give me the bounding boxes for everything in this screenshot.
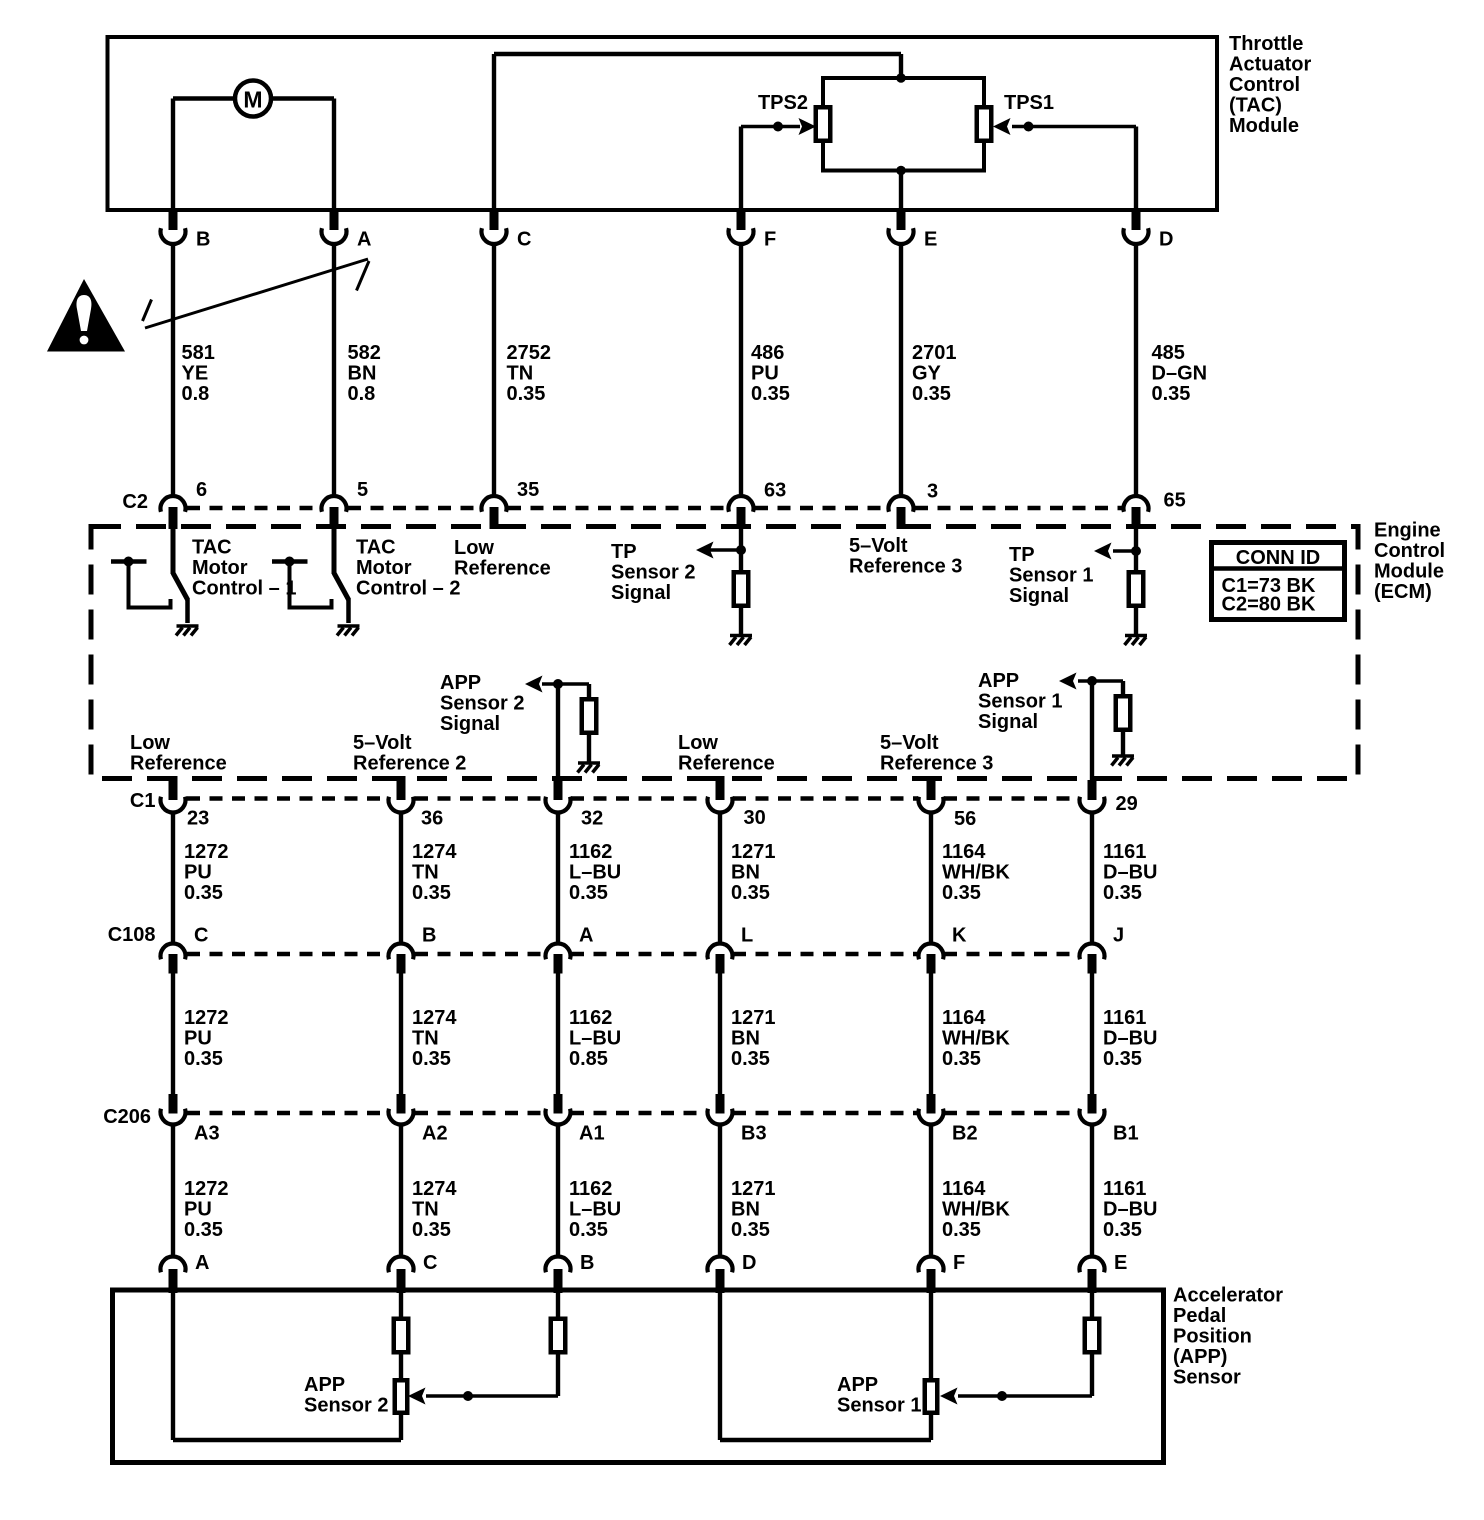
svg-text:Reference: Reference xyxy=(678,752,775,774)
svg-text:0.35: 0.35 xyxy=(184,1219,223,1241)
svg-text:C206: C206 xyxy=(103,1106,151,1128)
svg-text:23: 23 xyxy=(187,807,209,829)
svg-text:Sensor: Sensor xyxy=(1173,1366,1241,1388)
svg-text:0.35: 0.35 xyxy=(1152,383,1191,405)
svg-text:Reference: Reference xyxy=(130,752,227,774)
svg-text:(ECM): (ECM) xyxy=(1374,581,1432,603)
svg-text:35: 35 xyxy=(517,479,539,501)
svg-text:Motor: Motor xyxy=(192,557,248,579)
svg-text:(APP): (APP) xyxy=(1173,1346,1227,1368)
svg-text:BN: BN xyxy=(731,1198,760,1220)
svg-text:1272: 1272 xyxy=(184,1007,229,1029)
svg-text:5–Volt: 5–Volt xyxy=(849,535,908,557)
svg-text:0.35: 0.35 xyxy=(942,1219,981,1241)
svg-text:C108: C108 xyxy=(108,924,156,946)
svg-text:1271: 1271 xyxy=(731,1178,776,1200)
svg-text:L–BU: L–BU xyxy=(569,861,621,883)
svg-text:Accelerator: Accelerator xyxy=(1173,1284,1283,1306)
svg-text:Control: Control xyxy=(1374,540,1445,562)
svg-text:WH/BK: WH/BK xyxy=(942,861,1010,883)
svg-text:WH/BK: WH/BK xyxy=(942,1027,1010,1049)
svg-text:Signal: Signal xyxy=(1009,585,1069,607)
svg-text:YE: YE xyxy=(182,362,209,384)
svg-text:PU: PU xyxy=(184,1027,212,1049)
svg-text:B: B xyxy=(580,1252,594,1274)
svg-text:D–BU: D–BU xyxy=(1103,1027,1157,1049)
svg-text:Control – 2: Control – 2 xyxy=(356,577,460,599)
svg-text:36: 36 xyxy=(421,807,443,829)
svg-text:TN: TN xyxy=(412,1198,439,1220)
svg-text:2701: 2701 xyxy=(912,342,957,364)
svg-text:GY: GY xyxy=(912,362,942,384)
svg-text:Module: Module xyxy=(1229,115,1299,137)
svg-text:0.35: 0.35 xyxy=(1103,1219,1142,1241)
svg-text:Signal: Signal xyxy=(978,711,1038,733)
svg-text:Sensor 1: Sensor 1 xyxy=(1009,564,1093,586)
svg-text:Motor: Motor xyxy=(356,557,412,579)
svg-text:TPS2: TPS2 xyxy=(758,92,808,114)
svg-text:Sensor 1: Sensor 1 xyxy=(837,1394,921,1416)
svg-text:1161: 1161 xyxy=(1103,1178,1146,1200)
svg-text:A: A xyxy=(357,228,371,250)
svg-text:D–GN: D–GN xyxy=(1152,362,1208,384)
svg-text:0.8: 0.8 xyxy=(348,383,376,405)
svg-text:TN: TN xyxy=(412,861,439,883)
svg-text:D: D xyxy=(742,1252,756,1274)
svg-text:1164: 1164 xyxy=(942,1178,986,1200)
svg-text:APP: APP xyxy=(978,670,1019,692)
svg-text:C2: C2 xyxy=(122,491,148,513)
svg-text:Control – 1: Control – 1 xyxy=(192,577,296,599)
svg-text:Sensor 2: Sensor 2 xyxy=(440,692,524,714)
svg-text:A1: A1 xyxy=(579,1122,605,1144)
svg-text:Sensor 2: Sensor 2 xyxy=(304,1394,388,1416)
svg-text:BN: BN xyxy=(731,861,760,883)
svg-text:A: A xyxy=(195,1252,209,1274)
svg-text:0.35: 0.35 xyxy=(507,383,546,405)
svg-text:0.35: 0.35 xyxy=(412,1048,451,1070)
svg-text:2752: 2752 xyxy=(507,342,552,364)
svg-text:0.35: 0.35 xyxy=(751,383,790,405)
svg-text:L: L xyxy=(741,924,753,946)
svg-text:PU: PU xyxy=(184,1198,212,1220)
svg-text:1164: 1164 xyxy=(942,841,986,863)
svg-text:1271: 1271 xyxy=(731,841,776,863)
svg-text:D–BU: D–BU xyxy=(1103,1198,1157,1220)
svg-text:K: K xyxy=(952,924,967,946)
svg-text:J: J xyxy=(1113,924,1124,946)
svg-text:0.35: 0.35 xyxy=(731,1219,770,1241)
svg-text:0.35: 0.35 xyxy=(731,1048,770,1070)
svg-text:29: 29 xyxy=(1116,793,1138,815)
svg-text:Reference 2: Reference 2 xyxy=(353,752,466,774)
svg-text:TN: TN xyxy=(507,362,534,384)
svg-text:WH/BK: WH/BK xyxy=(942,1198,1010,1220)
svg-text:TP: TP xyxy=(611,541,637,563)
svg-text:TAC: TAC xyxy=(192,536,232,558)
svg-text:PU: PU xyxy=(751,362,779,384)
svg-text:F: F xyxy=(764,228,776,250)
svg-text:0.35: 0.35 xyxy=(412,882,451,904)
svg-text:581: 581 xyxy=(182,342,215,364)
svg-text:TPS1: TPS1 xyxy=(1004,92,1054,114)
svg-text:Low: Low xyxy=(678,732,718,754)
svg-text:L–BU: L–BU xyxy=(569,1027,621,1049)
svg-text:BN: BN xyxy=(731,1027,760,1049)
svg-text:63: 63 xyxy=(764,479,786,501)
svg-text:C: C xyxy=(423,1252,437,1274)
svg-text:C2=80 BK: C2=80 BK xyxy=(1222,593,1316,615)
svg-text:582: 582 xyxy=(348,342,381,364)
svg-text:1274: 1274 xyxy=(412,1007,457,1029)
svg-text:PU: PU xyxy=(184,861,212,883)
svg-text:0.85: 0.85 xyxy=(569,1048,608,1070)
svg-text:0.35: 0.35 xyxy=(184,1048,223,1070)
svg-text:1274: 1274 xyxy=(412,841,457,863)
svg-text:1272: 1272 xyxy=(184,1178,229,1200)
svg-text:TN: TN xyxy=(412,1027,439,1049)
svg-text:0.35: 0.35 xyxy=(569,882,608,904)
svg-text:1161: 1161 xyxy=(1103,841,1146,863)
svg-text:BN: BN xyxy=(348,362,377,384)
svg-text:Low: Low xyxy=(454,537,494,559)
svg-text:1162: 1162 xyxy=(569,841,612,863)
svg-text:Position: Position xyxy=(1173,1325,1252,1347)
svg-text:APP: APP xyxy=(837,1374,878,1396)
svg-text:A2: A2 xyxy=(422,1122,448,1144)
svg-text:D: D xyxy=(1159,228,1173,250)
svg-text:(TAC): (TAC) xyxy=(1229,94,1282,116)
svg-text:0.35: 0.35 xyxy=(1103,882,1142,904)
svg-text:1162: 1162 xyxy=(569,1007,612,1029)
svg-text:0.35: 0.35 xyxy=(731,882,770,904)
svg-text:0.35: 0.35 xyxy=(942,882,981,904)
svg-text:B: B xyxy=(196,228,210,250)
svg-text:C1: C1 xyxy=(130,790,156,812)
svg-text:Reference 3: Reference 3 xyxy=(849,555,962,577)
svg-text:0.35: 0.35 xyxy=(1103,1048,1142,1070)
svg-text:C: C xyxy=(194,924,208,946)
svg-text:M: M xyxy=(243,87,262,113)
svg-text:0.35: 0.35 xyxy=(184,882,223,904)
svg-text:E: E xyxy=(924,228,937,250)
svg-text:Control: Control xyxy=(1229,74,1300,96)
svg-text:65: 65 xyxy=(1164,489,1186,511)
svg-text:5: 5 xyxy=(357,479,368,501)
svg-text:A: A xyxy=(579,924,593,946)
svg-text:Reference 3: Reference 3 xyxy=(880,752,993,774)
svg-text:486: 486 xyxy=(751,342,784,364)
svg-text:L–BU: L–BU xyxy=(569,1198,621,1220)
svg-text:0.35: 0.35 xyxy=(412,1219,451,1241)
svg-text:APP: APP xyxy=(304,1374,345,1396)
svg-text:B1: B1 xyxy=(1113,1122,1139,1144)
svg-text:5–Volt: 5–Volt xyxy=(353,732,412,754)
svg-text:1272: 1272 xyxy=(184,841,229,863)
svg-text:Actuator: Actuator xyxy=(1229,53,1311,75)
svg-text:1161: 1161 xyxy=(1103,1007,1146,1029)
svg-text:1164: 1164 xyxy=(942,1007,986,1029)
svg-text:TAC: TAC xyxy=(356,536,396,558)
svg-text:Low: Low xyxy=(130,732,170,754)
svg-text:D–BU: D–BU xyxy=(1103,861,1157,883)
svg-text:CONN ID: CONN ID xyxy=(1236,547,1320,569)
svg-text:0.35: 0.35 xyxy=(942,1048,981,1070)
svg-text:1162: 1162 xyxy=(569,1178,612,1200)
svg-text:5–Volt: 5–Volt xyxy=(880,732,939,754)
svg-text:0.35: 0.35 xyxy=(569,1219,608,1241)
svg-text:485: 485 xyxy=(1152,342,1185,364)
svg-text:0.8: 0.8 xyxy=(182,383,210,405)
svg-text:A3: A3 xyxy=(194,1122,220,1144)
svg-text:1271: 1271 xyxy=(731,1007,776,1029)
svg-text:B3: B3 xyxy=(741,1122,767,1144)
svg-text:B: B xyxy=(422,924,436,946)
svg-text:C: C xyxy=(517,228,531,250)
svg-text:30: 30 xyxy=(744,807,766,829)
svg-text:Sensor 2: Sensor 2 xyxy=(611,561,695,583)
svg-text:56: 56 xyxy=(954,808,976,830)
svg-text:B2: B2 xyxy=(952,1122,978,1144)
svg-text:1274: 1274 xyxy=(412,1178,457,1200)
svg-text:Engine: Engine xyxy=(1374,519,1441,541)
svg-text:0.35: 0.35 xyxy=(912,383,951,405)
svg-text:F: F xyxy=(953,1252,965,1274)
svg-text:Throttle: Throttle xyxy=(1229,33,1303,55)
svg-text:Sensor 1: Sensor 1 xyxy=(978,690,1062,712)
svg-text:Module: Module xyxy=(1374,560,1444,582)
svg-text:32: 32 xyxy=(581,807,603,829)
svg-text:6: 6 xyxy=(196,479,207,501)
svg-text:Reference: Reference xyxy=(454,557,551,579)
svg-text:Pedal: Pedal xyxy=(1173,1305,1226,1327)
svg-text:3: 3 xyxy=(927,480,938,502)
svg-text:TP: TP xyxy=(1009,544,1035,566)
svg-text:Signal: Signal xyxy=(440,713,500,735)
svg-text:Signal: Signal xyxy=(611,582,671,604)
svg-text:E: E xyxy=(1114,1252,1127,1274)
svg-text:APP: APP xyxy=(440,672,481,694)
